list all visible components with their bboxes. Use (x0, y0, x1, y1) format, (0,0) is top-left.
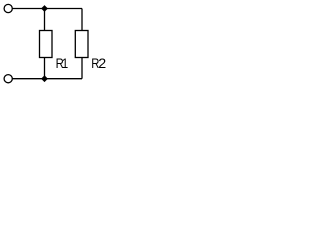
wire R1 bottom (44, 58, 46, 79)
node junction dot bottom (41, 75, 48, 82)
wire top horizontal (12, 8, 82, 10)
resistor R1 body (40, 31, 53, 58)
wire top-right vertical to R2 (81, 9, 83, 31)
svg-text:2: 2 (98, 55, 106, 71)
svg-text:1: 1 (62, 55, 68, 71)
wire junction to R1 top (44, 9, 46, 31)
node junction dot top (41, 5, 48, 12)
terminal top-left (4, 4, 12, 12)
terminal bottom-left (4, 75, 12, 83)
wire R2 bottom (81, 58, 83, 79)
wire bottom horizontal (12, 78, 82, 80)
resistor R2 body (75, 31, 88, 58)
label R2 (91, 55, 106, 71)
label R1 (56, 55, 69, 71)
